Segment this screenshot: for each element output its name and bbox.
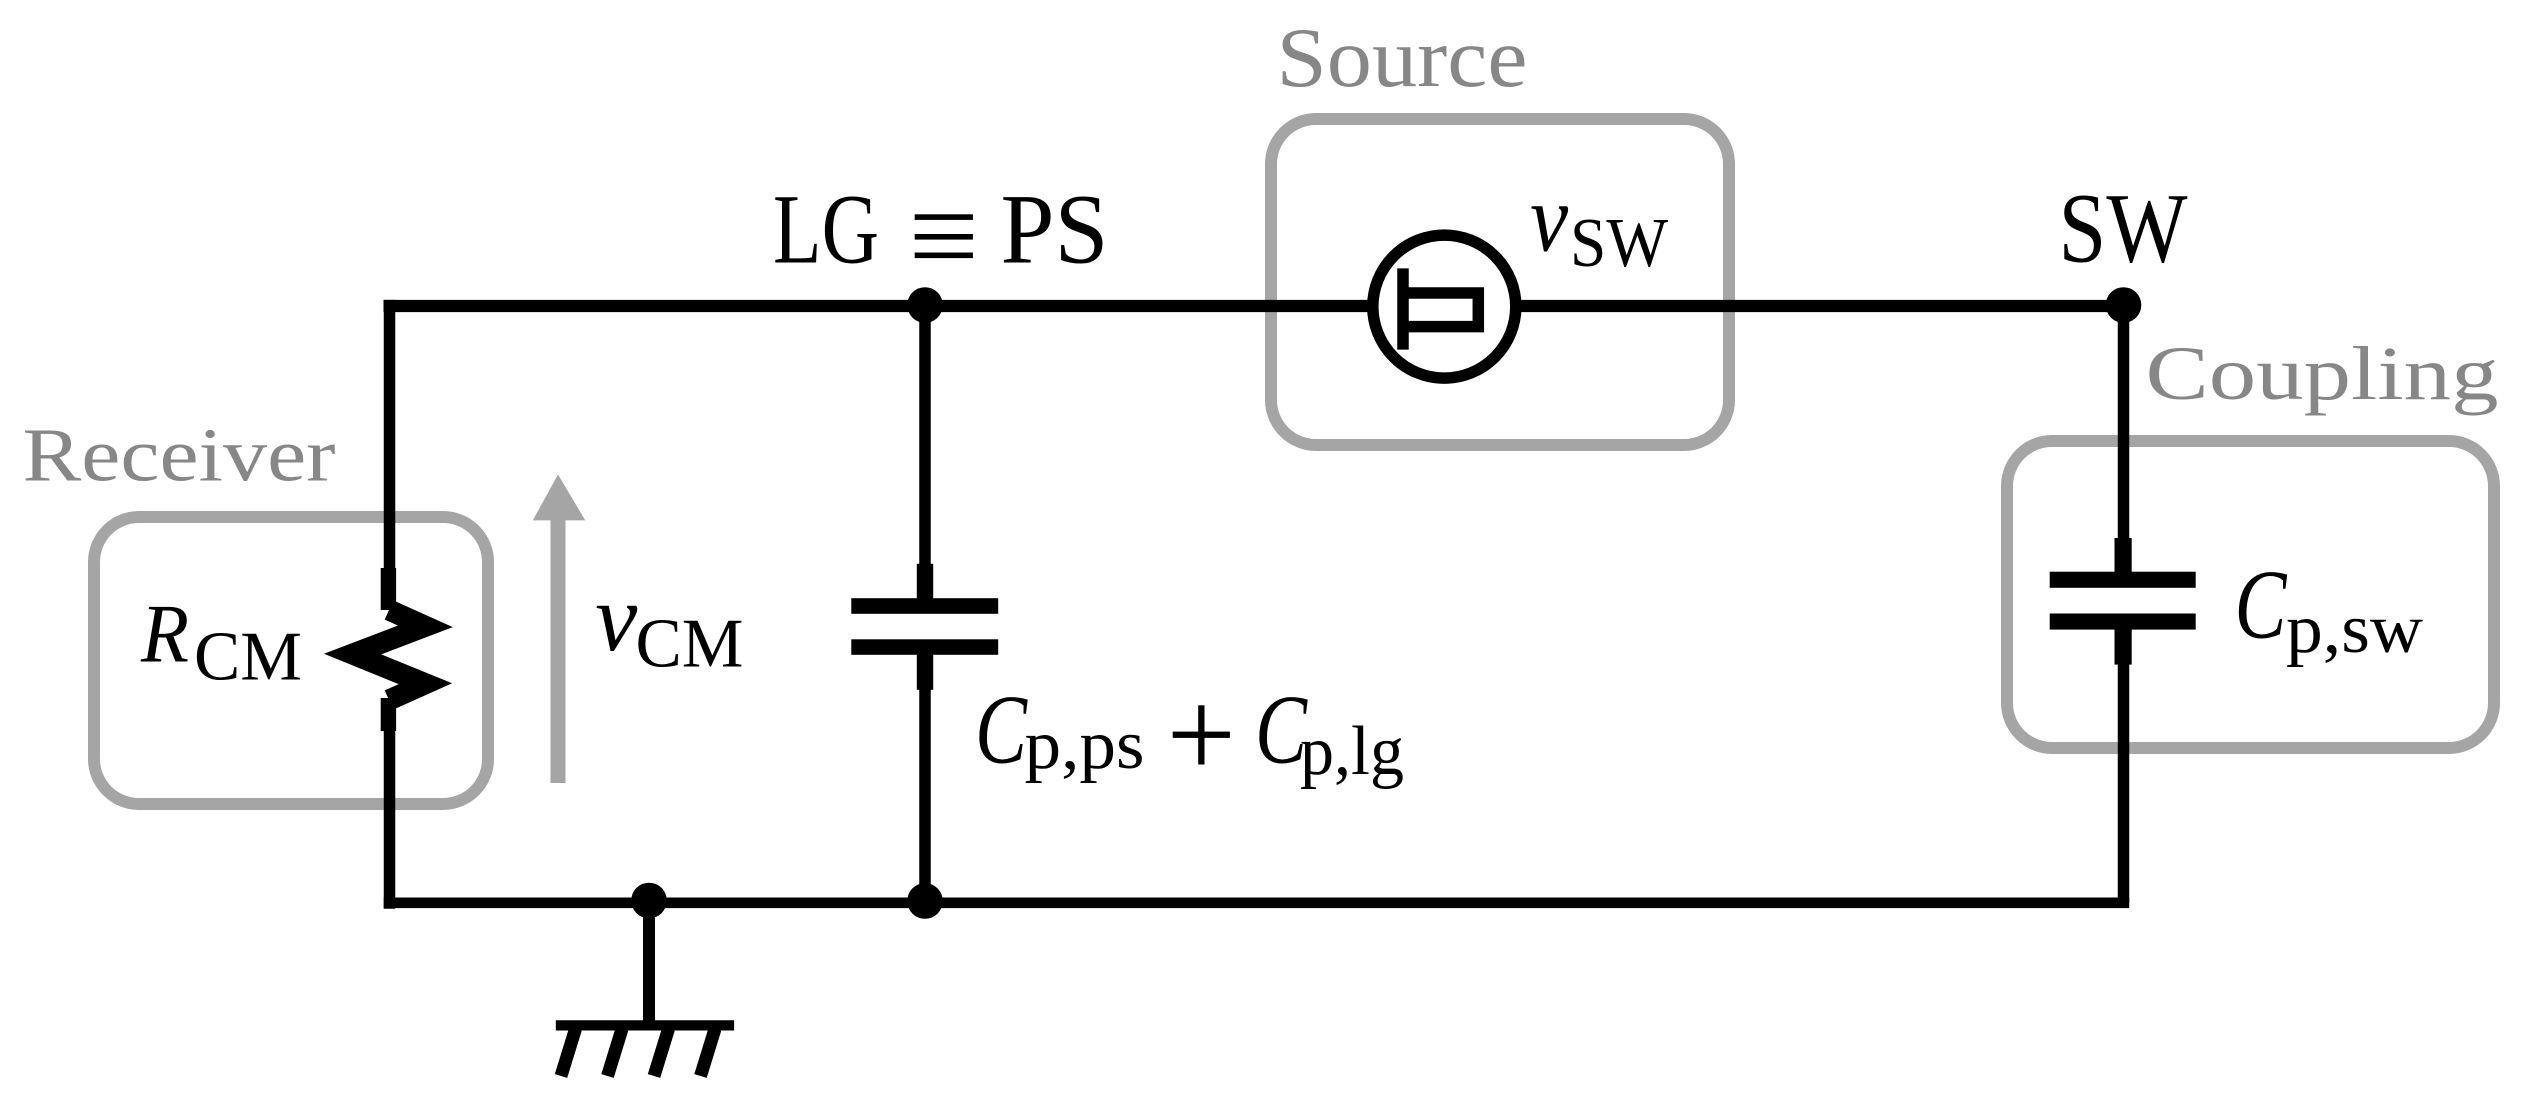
arrow vCM xyxy=(533,475,586,784)
svg-text:v: v xyxy=(595,564,637,671)
svg-text:R: R xyxy=(140,588,189,681)
svg-text:C: C xyxy=(2235,551,2288,660)
ground xyxy=(556,901,734,1076)
voltage source vSW xyxy=(1373,235,1516,378)
node SW dot xyxy=(2106,287,2142,323)
svg-text:p,ps: p,ps xyxy=(1025,707,1145,784)
svg-text:SW: SW xyxy=(1570,205,1668,282)
svg-text:CM: CM xyxy=(194,618,302,695)
wire left vertical upper xyxy=(384,300,396,572)
capacitor Cp,ps+Cp,lg xyxy=(851,564,998,690)
wire bottom xyxy=(384,897,2130,908)
capacitor Cp,sw xyxy=(2050,538,2196,665)
wire top xyxy=(384,300,2130,312)
svg-text:CM: CM xyxy=(636,605,744,682)
Coupling box xyxy=(2007,441,2494,748)
wire left vertical lower xyxy=(384,728,396,909)
svg-text:C: C xyxy=(975,676,1028,785)
svg-text:Source: Source xyxy=(1277,11,1528,105)
svg-text:SW: SW xyxy=(2059,172,2189,283)
wire middle vertical upper xyxy=(919,306,931,567)
node cap-bottom dot xyxy=(907,883,943,919)
wire middle vertical lower xyxy=(919,687,931,903)
svg-text:v: v xyxy=(1530,165,1568,272)
svg-text:Coupling: Coupling xyxy=(2146,332,2499,416)
svg-text:p,sw: p,sw xyxy=(2286,591,2423,668)
wire right vertical upper xyxy=(2118,306,2130,540)
node ground dot xyxy=(631,883,667,919)
node LG=PS dot xyxy=(907,287,943,323)
Receiver box xyxy=(94,517,488,804)
svg-text:PS: PS xyxy=(1001,174,1109,285)
wire right vertical lower xyxy=(2118,661,2130,903)
resistor RCM xyxy=(353,568,426,731)
svg-text:LG: LG xyxy=(773,174,879,285)
Source box xyxy=(1271,119,1729,445)
square wave symbol xyxy=(1403,268,1478,349)
svg-text:p,lg: p,lg xyxy=(1300,713,1404,790)
svg-text:Receiver: Receiver xyxy=(23,414,336,498)
